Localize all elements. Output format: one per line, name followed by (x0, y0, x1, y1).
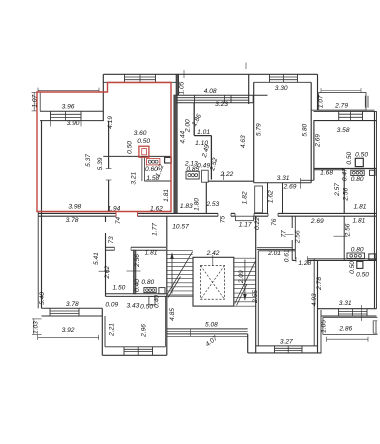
stairs: right flight arrow down (244, 260, 246, 297)
svg-text:5.39: 5.39 (97, 157, 104, 170)
svg-text:1.05: 1.05 (178, 81, 185, 94)
entry step rect at north wall (236, 216, 254, 221)
svg-text:0.40: 0.40 (134, 279, 141, 292)
svg-text:2.56: 2.56 (342, 187, 349, 201)
elevator: outer shaft rect (193, 257, 234, 306)
dim tick door 77 (285, 234, 294, 236)
stairs: left flight treads (167, 249, 193, 251)
wall: kitchen/bath right wall thick band (174, 95, 178, 213)
svg-text:2.69: 2.69 (315, 134, 322, 148)
svg-text:0.80: 0.80 (351, 246, 364, 253)
svg-text:0.80: 0.80 (141, 279, 154, 286)
stairs: right flight stringer diagonals (235, 261, 256, 304)
svg-text:1.07: 1.07 (31, 94, 38, 107)
elevator: 2.42 dim tick (212, 255, 214, 266)
wall: lower apt top wall y=247.3/250.2 with door gap 73 (106, 246, 115, 248)
wall: room3.31 left wall x=317.5 (317, 260, 319, 353)
wall: roomC bottom wall y=168.5 (314, 168, 377, 170)
window W2: left room top window (51, 113, 82, 115)
wall: apartment bathroom divider (141, 157, 143, 181)
svg-text:1.77: 1.77 (152, 223, 159, 236)
vent shaft square roomC (355, 158, 363, 166)
svg-text:2.57: 2.57 (334, 183, 341, 197)
svg-text:76: 76 (271, 218, 278, 226)
wall: vestibule bottom wall y=247.7/249.6 (257, 247, 292, 249)
svg-text:1.28: 1.28 (298, 260, 311, 267)
dimension bracket 1.03 bottom-left (33, 319, 35, 335)
svg-text:2.01: 2.01 (267, 250, 281, 257)
door leaf unit2 bathroom (202, 170, 209, 182)
wall: top outer wall y=74.3 (103, 73, 248, 75)
wall: room3.31 bottom wall with window W5 (318, 308, 377, 310)
tick for 2.22 dim (223, 172, 225, 180)
svg-text:2.86: 2.86 (338, 326, 352, 333)
svg-text:4.19: 4.19 (107, 116, 114, 129)
wall: unit2 top window wall band y=95-102.7 (176, 94, 267, 96)
tick on top wall left (183, 70, 185, 78)
svg-text:3.27: 3.27 (280, 339, 293, 346)
svg-text:2.96: 2.96 (140, 324, 147, 338)
stove bathD with burners (351, 170, 364, 175)
dimension bracket 1.07 top-left (33, 93, 35, 111)
svg-text:74: 74 (115, 217, 122, 225)
svg-text:5.80: 5.80 (302, 123, 309, 136)
svg-text:0.50: 0.50 (355, 151, 368, 158)
svg-text:0.50: 0.50 (349, 261, 356, 274)
wall: bottom-left window wall band W8 (42, 307, 103, 309)
svg-text:75: 75 (220, 216, 227, 224)
dimension line 3.92 (38, 336, 99, 338)
svg-text:1.83: 1.83 (180, 203, 193, 210)
svg-text:10.57: 10.57 (172, 224, 189, 231)
svg-text:3.90: 3.90 (67, 120, 80, 127)
wall: left room right wall with door gap (108, 121, 110, 169)
svg-text:3.92: 3.92 (62, 327, 75, 334)
svg-text:73: 73 (108, 236, 115, 244)
svg-text:5.79: 5.79 (255, 123, 262, 136)
tick at x=300.5 (300, 178, 302, 189)
wall: vestibule right wall inner x=295.3 (294, 216, 296, 259)
wall: kitchen block left vertical x=103.3 (102, 74, 104, 121)
wall: stairwell west wall x=166.8 (166, 216, 168, 355)
stove lower apt with burners (144, 288, 156, 293)
svg-text:4.63: 4.63 (240, 135, 247, 148)
svg-text:77: 77 (280, 230, 287, 238)
loggia TR right window marks (364, 96, 366, 108)
window W1: kitchen top window (125, 76, 156, 78)
svg-text:2.42: 2.42 (206, 250, 220, 257)
tick left end 3.96 dim (37, 88, 39, 93)
dim tick room 2.56 right (334, 235, 348, 237)
svg-text:2.69: 2.69 (283, 184, 297, 191)
wall: room3.30 right wall x=311.2 (310, 82, 312, 182)
svg-text:1.62: 1.62 (150, 206, 163, 213)
svg-text:3.43: 3.43 (126, 302, 139, 309)
wall: room3.27 bottom with window W6 (256, 345, 318, 347)
wall: x=102.3/105 verticals bottom-left (101, 308, 103, 355)
wall: room3.30 top wall (249, 73, 318, 75)
svg-text:2.21: 2.21 (109, 323, 116, 337)
svg-text:3.31: 3.31 (339, 300, 352, 307)
svg-text:4.44: 4.44 (179, 130, 186, 143)
wall: room 3.27 inner left x=258.3 (257, 251, 259, 346)
svg-text:3.21: 3.21 (131, 171, 138, 184)
svg-text:1.80: 1.80 (194, 198, 201, 211)
svg-text:3.78: 3.78 (66, 217, 79, 224)
stairs: right flight treads (234, 257, 256, 259)
loggia TR dimension line (321, 90, 361, 92)
svg-text:2.53: 2.53 (205, 201, 219, 208)
svg-text:2.56: 2.56 (345, 223, 352, 237)
svg-text:0.61: 0.61 (284, 249, 291, 262)
svg-text:3.60: 3.60 (134, 130, 147, 137)
door symbol small rect below wall (149, 296, 155, 305)
svg-text:2.69: 2.69 (310, 218, 324, 225)
svg-text:1.81: 1.81 (354, 203, 367, 210)
svg-text:3.98: 3.98 (68, 204, 81, 211)
svg-text:1.81: 1.81 (163, 189, 170, 202)
svg-text:4.85: 4.85 (169, 308, 176, 321)
wall: kitchen bottom wall y=156.4 (103, 155, 171, 157)
wall: y=258.8/260.4 with door gap 1.28 (294, 258, 297, 260)
wall: strip left inner edge (39, 93, 41, 112)
svg-text:0.50: 0.50 (346, 151, 353, 164)
svg-text:1.17: 1.17 (239, 222, 252, 229)
door jamb ticks left room (106, 168, 112, 170)
svg-text:1.05: 1.05 (321, 320, 328, 333)
svg-text:0.50: 0.50 (140, 304, 153, 311)
svg-text:0.80: 0.80 (351, 176, 364, 183)
dim line 3.96 above red (38, 90, 99, 92)
svg-text:0.09: 0.09 (105, 302, 118, 309)
vent shaft bathD right (370, 170, 376, 175)
svg-text:3.78: 3.78 (66, 301, 79, 308)
window W3: room3.30 top window (270, 76, 298, 78)
stove unit2 with burners (186, 171, 199, 179)
red door jamb tick left (115, 212, 117, 217)
svg-text:2.09: 2.09 (238, 270, 245, 284)
svg-text:2.79: 2.79 (334, 103, 348, 110)
wall: building left wall inner line (41, 121, 43, 309)
vent shaft right of y=260 wall (369, 254, 376, 260)
svg-text:3.30: 3.30 (275, 85, 288, 92)
wall: kitchen right wall upper band (176, 74, 179, 95)
svg-text:1.03: 1.03 (33, 321, 40, 334)
svg-text:0.47: 0.47 (341, 168, 348, 181)
wall: right outer wall x=374.5/376.5 (374, 111, 376, 308)
svg-text:5.37: 5.37 (85, 154, 92, 167)
wall: stairwell east wall x=255.7 (255, 216, 257, 353)
svg-text:2.55: 2.55 (252, 290, 259, 304)
svg-text:2.62: 2.62 (104, 265, 111, 279)
svg-text:5.41: 5.41 (93, 252, 100, 265)
svg-text:3.31: 3.31 (277, 175, 290, 182)
tick on red top edge (98, 88, 100, 93)
wall: lower apt room divider band (134, 250, 136, 294)
svg-text:4.93: 4.93 (311, 293, 318, 306)
svg-text:1.82: 1.82 (241, 191, 248, 204)
wall: x=313.9 vertical between rooms (313, 121, 315, 181)
svg-text:0.40: 0.40 (153, 295, 160, 308)
vent shaft square 2 (165, 157, 172, 163)
wall: lower apt left inner wall x=105.5 with door gap (105, 216, 107, 222)
wall: room3.30 bottom y=182.7 (254, 182, 312, 184)
svg-text:1.07: 1.07 (317, 95, 324, 108)
svg-text:1.81: 1.81 (352, 218, 365, 225)
wall: apartment bathroom bottom y=181 (144, 180, 171, 182)
wall: vertical x=248.7 top (248, 74, 250, 104)
elevator: inner cab rect dashed (201, 266, 225, 300)
stove lower-right kitchen (347, 253, 365, 258)
red door jamb tick right (137, 212, 139, 217)
elevator: X cross (201, 266, 225, 300)
tick on top wall (245, 63, 247, 70)
svg-text:2.78: 2.78 (316, 277, 323, 291)
svg-text:1.94: 1.94 (107, 206, 120, 213)
svg-text:3.23: 3.23 (215, 101, 228, 108)
dim tick lines lower apt (99, 270, 111, 272)
wall: x=344.2 below corridor (343, 216, 345, 260)
svg-text:2.56: 2.56 (134, 254, 141, 268)
wall: vestibule east wall x=292.2 with door gap 77 (291, 216, 293, 228)
dim line below loggia BR (327, 338, 368, 340)
stairs: left flight arrow up (171, 257, 173, 294)
wall: bottom outline right of stairwell (248, 352, 322, 354)
wall: kitchen inner top edge y=82.3 (103, 81, 176, 83)
wall: bottom room floor walls with window W9 (105, 346, 165, 348)
svg-text:2.22: 2.22 (219, 171, 233, 178)
stairs: left flight stringer diagonals (167, 252, 193, 295)
wall: unit2 bathroom walls (193, 103, 195, 136)
svg-text:1.68: 1.68 (320, 169, 333, 176)
wall: stairwell south window band W7 (167, 328, 248, 330)
highlighted apartment red outline (37, 83, 171, 212)
svg-text:5.08: 5.08 (205, 322, 218, 329)
svg-text:1.50: 1.50 (112, 284, 125, 291)
wall: left room top wall band with window (40, 110, 103, 112)
loggia BR: bottom-right balcony (323, 316, 378, 318)
svg-text:0.22: 0.22 (254, 217, 261, 230)
wall: top-right wall band y=110-120.6 with window W4 (311, 109, 374, 111)
wall: room3.30 left wall x=253.7 (253, 82, 255, 182)
wall: top-right corner vertical x=317.5 (317, 74, 319, 110)
svg-text:2.56: 2.56 (295, 230, 302, 244)
wall: horizontal y=180.3 short (301, 179, 314, 181)
wall: room 3.27 inner top y=250.8 (258, 250, 295, 252)
svg-text:3.96: 3.96 (62, 104, 75, 111)
loggia TR: top-right balcony outline (319, 93, 366, 111)
wall: bathD left wall x=344.2 (343, 169, 345, 214)
wall: unit2 lower hall walls (205, 181, 207, 213)
svg-text:4.08: 4.08 (204, 88, 217, 95)
vent shaft red square in kitchen (139, 146, 149, 157)
stove red with burners (146, 159, 160, 165)
stair landing edge (167, 295, 193, 297)
svg-text:3.58: 3.58 (337, 127, 350, 134)
svg-text:0.85: 0.85 (186, 166, 199, 173)
svg-text:1.62: 1.62 (268, 190, 275, 203)
svg-text:0.50: 0.50 (127, 141, 134, 154)
vent shaft lower apt (159, 288, 165, 294)
wall: corridor north wall band y=213.4/216.2 with door gaps (38, 212, 116, 214)
wall: lower apt y=293.8/296.4 (106, 293, 167, 295)
wall: building left wall outer line below apartment (37, 212, 39, 309)
vent shaft near y=260 wall (357, 261, 363, 268)
svg-text:1.81: 1.81 (145, 249, 158, 256)
svg-text:5.40: 5.40 (39, 292, 46, 305)
svg-text:0.50: 0.50 (356, 271, 369, 278)
svg-text:1.01: 1.01 (197, 129, 210, 136)
door leaf corridor room (255, 186, 263, 213)
svg-text:0.50: 0.50 (137, 138, 150, 145)
